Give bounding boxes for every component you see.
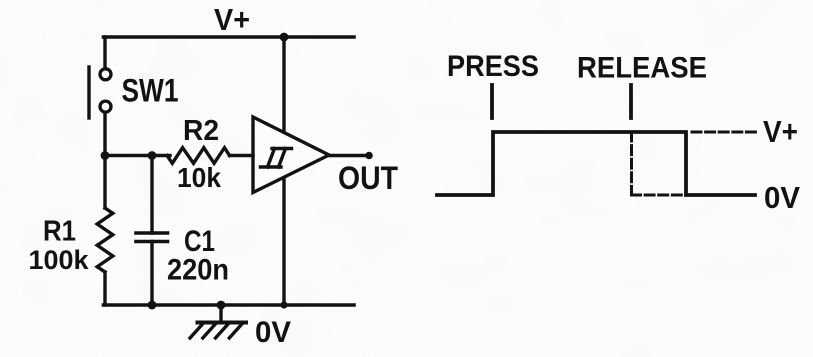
- waveform output trace: [437, 132, 755, 195]
- wire top rail down to SW1 top contact: [103, 37, 106, 68]
- svg-text:100k: 100k: [29, 245, 90, 275]
- wire node A horizontal: [105, 154, 170, 157]
- resistor R1: [97, 208, 113, 272]
- switch SW1: [89, 67, 111, 118]
- svg-text:OUT: OUT: [338, 160, 398, 196]
- hysteresis symbol inside U1: [261, 149, 292, 168]
- svg-text:V+: V+: [214, 2, 250, 37]
- svg-text:V+: V+: [763, 114, 798, 149]
- wire 0V bottom rail: [104, 303, 355, 307]
- node ground junction: [217, 301, 226, 310]
- node C1 / rail junction: [148, 301, 157, 310]
- node C1 top junction dot: [148, 151, 157, 160]
- svg-text:0V: 0V: [255, 316, 291, 349]
- wire node A down to R1: [103, 156, 106, 209]
- wire C1 bottom plate to 0V rail: [150, 242, 153, 306]
- wire SW1 bottom contact to node A: [103, 113, 106, 156]
- svg-text:0V: 0V: [764, 180, 800, 215]
- resistor R2: [167, 148, 230, 164]
- dashed V+ reference line: [692, 131, 759, 134]
- wire R2 to U1 input: [230, 154, 254, 157]
- svg-text:R2: R2: [183, 115, 219, 147]
- svg-text:220n: 220n: [167, 254, 229, 287]
- svg-text:R1: R1: [43, 216, 76, 248]
- wire node A down to C1 top plate: [150, 156, 153, 234]
- wire gate supply vertical (lower, resumes at U1 bottom edge): [282, 178, 285, 305]
- wire R1 to 0V rail: [103, 272, 106, 305]
- svg-text:SW1: SW1: [122, 73, 179, 109]
- node gate supply / rail junction: [280, 301, 287, 308]
- ground: [190, 305, 246, 338]
- node top-rail / gate-supply junction: [280, 33, 289, 42]
- node OUT terminal dot: [365, 152, 373, 160]
- wire V+ top rail: [104, 35, 355, 39]
- release marker tick: [629, 85, 633, 118]
- svg-text:10k: 10k: [177, 162, 221, 193]
- node A junction dot: [101, 151, 110, 160]
- dashed release transition vertical: [630, 132, 633, 195]
- wire U1 output: [329, 154, 369, 157]
- op-amp U1 Schmitt-trigger buffer: [253, 117, 329, 193]
- press marker tick: [490, 85, 494, 118]
- svg-text:RELEASE: RELEASE: [577, 52, 707, 85]
- wire gate supply vertical (upper, stops at U1 top edge): [282, 37, 285, 132]
- dashed low-level segment: [632, 194, 687, 197]
- svg-text:PRESS: PRESS: [447, 50, 539, 83]
- capacitor C1: [136, 233, 168, 242]
